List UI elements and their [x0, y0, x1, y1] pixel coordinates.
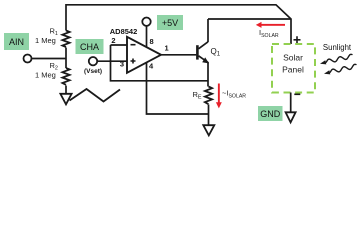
- op-amp U1 AD8542: [127, 37, 161, 73]
- svg-text:CHA: CHA: [80, 42, 99, 52]
- op-amp minus sign: [131, 44, 136, 46]
- wire collector rail to panel: [208, 18, 291, 20]
- - label solar panel: [294, 93, 300, 95]
- wire RE bottom to ground: [208, 105, 210, 126]
- svg-text:Sunlight: Sunlight: [323, 43, 352, 52]
- ground (RE / op-amp): [203, 125, 214, 135]
- transistor Q1: [197, 42, 208, 63]
- waveform triangle sweep symbol: [70, 89, 121, 102]
- sunlight wavy arrow 2: [324, 64, 356, 74]
- wire Vset to pin 3: [97, 60, 127, 62]
- wire AIN to divider junction: [32, 58, 67, 60]
- +5V label box: [157, 15, 183, 30]
- resistor R1: [62, 31, 69, 48]
- svg-text:Panel: Panel: [282, 65, 304, 75]
- resistor RE: [205, 87, 212, 105]
- svg-text:Solar: Solar: [283, 53, 303, 63]
- svg-text:GND: GND: [260, 109, 281, 119]
- red arrow I_SOLAR on collector rail: [256, 22, 285, 28]
- solar panel dashed box: [272, 44, 315, 93]
- svg-text:+5V: +5V: [162, 18, 178, 28]
- svg-text:1 Meg: 1 Meg: [35, 36, 56, 45]
- CHA label box: [76, 39, 104, 54]
- svg-text:(Vset): (Vset): [84, 68, 102, 75]
- svg-text:8: 8: [150, 37, 154, 46]
- pin 2 wire: [111, 44, 128, 46]
- feedback wire pin2 to RE top: [111, 45, 209, 81]
- wire top rail from R1 to solar panel +: [66, 5, 291, 44]
- svg-text:2: 2: [111, 36, 115, 45]
- svg-text:AIN: AIN: [9, 37, 24, 47]
- Q1 emitter wire: [207, 62, 209, 87]
- svg-text:1: 1: [165, 44, 169, 53]
- svg-text:3: 3: [120, 60, 124, 69]
- red arrow ~I_SOLAR down through RE: [216, 84, 222, 109]
- Q1 collector wire: [207, 19, 209, 42]
- svg-text:AD8542: AD8542: [110, 27, 138, 36]
- AIN label box: [4, 33, 29, 50]
- resistor R2: [62, 68, 69, 85]
- pin 4 wire down to ground rail: [147, 62, 209, 114]
- terminal +5V: [142, 18, 150, 26]
- sunlight wavy arrow 1: [320, 54, 352, 64]
- wire R1 top lead: [65, 4, 67, 31]
- pin 8 wire: [146, 26, 148, 47]
- terminal AIN: [24, 55, 32, 63]
- ground (R2): [60, 94, 71, 105]
- + label solar panel: [294, 36, 301, 43]
- GND label box: [258, 106, 283, 121]
- wire R1 to junction: [65, 48, 67, 69]
- wire R2 bottom lead: [65, 86, 67, 94]
- svg-text:1 Meg: 1 Meg: [35, 71, 56, 80]
- terminal Vset: [89, 57, 97, 65]
- ground (solar panel): [286, 112, 296, 122]
- pin 1 output wire: [161, 54, 196, 56]
- op-amp plus sign: [131, 59, 136, 64]
- wire panel minus to ground: [290, 93, 292, 113]
